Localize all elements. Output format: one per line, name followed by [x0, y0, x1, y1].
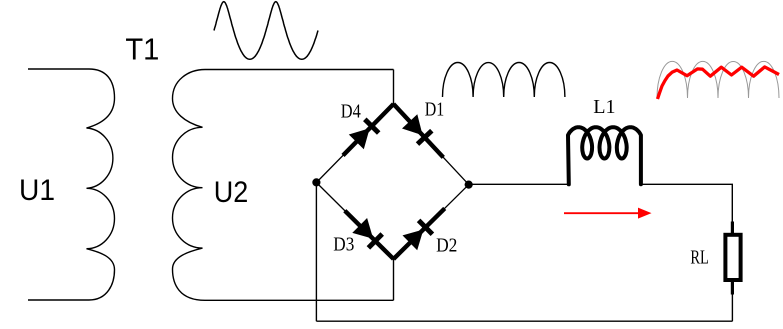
resistor RL: [725, 235, 740, 280]
bridge edge bottom-right: [394, 185, 469, 259]
diode D2: [394, 208, 445, 259]
rectified waveform: [443, 62, 565, 97]
diode D3: [345, 211, 394, 259]
bridge edge top-right: [394, 104, 469, 185]
transformer winding U2: [173, 70, 394, 301]
wire top vertex lead: [393, 70, 395, 105]
transformer winding U1: [28, 69, 115, 300]
node left: [312, 178, 320, 186]
resistor RL lead top: [731, 222, 734, 236]
unfiltered waveform (grey): [657, 61, 779, 98]
svg-text:U1: U1: [19, 174, 55, 207]
diode D1: [394, 104, 444, 157]
svg-text:L1: L1: [593, 97, 615, 118]
svg-text:D1: D1: [425, 99, 445, 120]
wire bottom vertex lead: [393, 259, 395, 300]
resistor RL lead bottom: [731, 280, 734, 295]
filtered waveform (red): [658, 67, 780, 99]
svg-text:D2: D2: [436, 235, 457, 256]
diode D4: [343, 104, 394, 155]
svg-text:T1: T1: [125, 31, 159, 66]
wire bottom rail: [316, 320, 732, 322]
wire right node to L1: [469, 183, 569, 185]
inductor L1: [568, 127, 641, 184]
wire RL to bottom rail: [731, 295, 733, 322]
svg-text:D3: D3: [333, 235, 354, 256]
bridge edge left-top: [316, 104, 393, 183]
wire L1 to corner: [641, 184, 732, 221]
svg-text:D4: D4: [341, 102, 361, 123]
bridge edge left-bottom: [316, 183, 393, 260]
node right: [465, 181, 473, 189]
current arrow: [564, 212, 639, 214]
svg-text:RL: RL: [690, 248, 709, 269]
wire left node down: [315, 183, 317, 322]
sine waveform: [214, 2, 318, 60]
svg-text:U2: U2: [214, 176, 249, 209]
